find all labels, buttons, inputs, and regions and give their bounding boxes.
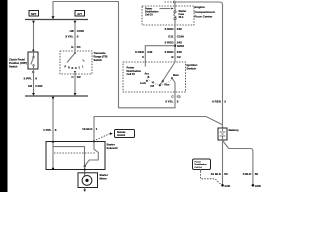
svg-text:H8: H8 [28, 84, 32, 88]
ground G101 [221, 184, 224, 187]
svg-text:50: 50 [255, 172, 259, 176]
dashed leader to ground wire [201, 171, 221, 184]
svg-text:Battery: Battery [229, 128, 240, 132]
svg-text:S202: S202 [177, 44, 184, 48]
arrow at bottom bus (CPP branch) [32, 93, 35, 96]
svg-text:5 RED: 5 RED [212, 100, 222, 104]
svg-text:G105: G105 [255, 185, 262, 188]
svg-text:C100: C100 [77, 29, 85, 33]
ignition switch dashed box [123, 62, 186, 92]
svg-text:242: 242 [177, 27, 182, 31]
svg-text:Cell 14: Cell 14 [195, 166, 203, 169]
svg-text:Engine: Engine [195, 5, 206, 9]
svg-text:5 RED: 5 RED [165, 50, 175, 54]
svg-text:C2: C2 [177, 55, 181, 59]
engine compartment fuse center dashed box [142, 6, 194, 25]
remote control reference box [115, 130, 135, 138]
svg-text:Compartment: Compartment [195, 10, 215, 14]
wire: feed into starter fuse [174, 3, 176, 11]
wire: solenoid B feed from battery wire [94, 117, 223, 142]
wire: A/T branch down to TR switch [74, 22, 76, 52]
svg-text:C1: C1 [177, 95, 181, 99]
wire: solenoid output to starter motor [84, 166, 86, 176]
svg-text:Fuse Center: Fuse Center [195, 15, 214, 19]
svg-text:Switch: Switch [94, 58, 103, 62]
svg-text:242: 242 [147, 50, 152, 54]
svg-text:Transaxle: Transaxle [94, 51, 107, 55]
svg-text:C100: C100 [177, 34, 185, 38]
arrow at A/T branch top [74, 21, 77, 24]
dashed arrow to remote control box [96, 134, 110, 140]
svg-text:Switch: Switch [9, 65, 18, 69]
svg-text:Remote: Remote [117, 131, 126, 134]
left black scan border [0, 0, 8, 192]
svg-text:Motor: Motor [100, 176, 107, 180]
power distribution cell reference box (bottom right) [193, 159, 211, 170]
svg-text:3 BLK: 3 BLK [243, 172, 253, 176]
ignition rotation dashed arc [148, 79, 172, 85]
fuse: Starter Fuse 30 A [174, 11, 176, 13]
svg-text:242: 242 [177, 50, 182, 54]
svg-text:5 RED: 5 RED [135, 50, 145, 54]
ignition switch rotary arm [160, 62, 175, 85]
svg-text:Starter: Starter [107, 142, 115, 146]
solenoid contact [85, 142, 99, 167]
svg-text:5 PPL: 5 PPL [24, 77, 33, 81]
wire: C pin stub [144, 62, 146, 67]
svg-text:Clutch Pedal: Clutch Pedal [9, 58, 25, 62]
svg-text:Range (TR): Range (TR) [94, 54, 108, 58]
node M/T tag box [29, 11, 39, 17]
junction S terminal [52, 141, 54, 143]
svg-text:3 YEL: 3 YEL [65, 35, 73, 39]
svg-text:Off: Off [150, 85, 154, 88]
wire: top option bus [25, 19, 88, 21]
wire: CPP switch output down to bottom bus [33, 69, 35, 94]
starter motor box [78, 173, 98, 188]
switch CPP (clutch pedal position) box [28, 52, 38, 69]
svg-text:1 PPL: 1 PPL [43, 128, 52, 132]
wire: ignition START feed loop to top bus [53, 2, 175, 108]
svg-text:Lock: Lock [140, 82, 146, 85]
junction arrow onto top bus [51, 16, 54, 19]
wire: bottom option bus [25, 95, 88, 97]
arrow at bottom bus (TR branch) [74, 93, 77, 96]
svg-text:Switch: Switch [187, 67, 197, 71]
svg-text:3 YEL: 3 YEL [165, 100, 173, 104]
TR switch arm and contacts [74, 52, 76, 54]
svg-text:Cell 10: Cell 10 [127, 72, 136, 76]
svg-text:G101: G101 [225, 185, 232, 188]
solenoid coil path [52, 142, 54, 169]
svg-text:N: N [72, 67, 74, 70]
svg-text:Cell 10: Cell 10 [145, 14, 153, 17]
svg-text:H8: H8 [70, 29, 74, 33]
svg-text:C100: C100 [35, 84, 43, 88]
svg-text:50: 50 [224, 172, 228, 176]
wire: battery negative to right ground [223, 141, 253, 186]
arrow below bottom bus [52, 97, 55, 100]
svg-text:M/T: M/T [31, 12, 36, 16]
wire: battery negative down to ground [222, 140, 224, 185]
svg-text:5 RED: 5 RED [165, 27, 175, 31]
junction B terminal [93, 140, 95, 142]
wire: bus output down to starter solenoid S [52, 96, 54, 142]
wire: M/T branch down to CPP switch [33, 22, 35, 53]
wire: fuse output down to S202 [174, 20, 176, 62]
svg-text:Start: Start [173, 74, 179, 77]
svg-text:Solenoid: Solenoid [107, 146, 118, 150]
svg-text:Run: Run [165, 84, 170, 87]
svg-text:D2: D2 [77, 75, 81, 79]
svg-text:Starter: Starter [100, 173, 108, 177]
svg-text:D: D [75, 67, 77, 70]
tick below reference box [200, 170, 202, 172]
CPP switch blade [31, 52, 34, 69]
wire: S202 left branch to ignition C [145, 46, 175, 62]
ground G105 [252, 184, 255, 187]
battery [218, 128, 227, 140]
svg-text:Position (CPP): Position (CPP) [9, 61, 27, 65]
svg-text:19 BLK: 19 BLK [82, 127, 93, 131]
svg-text:30 A: 30 A [179, 16, 184, 19]
arrow at M/T branch top [32, 21, 35, 24]
leader arrow to feed wire [160, 8, 171, 10]
svg-text:Acc: Acc [145, 72, 150, 75]
starter solenoid box [46, 142, 105, 170]
svg-text:A/T: A/T [77, 12, 82, 16]
wire: battery feed along top [165, 1, 173, 3]
svg-text:R: R [68, 66, 70, 69]
svg-text:E11: E11 [168, 34, 174, 38]
svg-text:Distribution: Distribution [195, 163, 208, 166]
svg-text:D1: D1 [77, 45, 81, 49]
wire: TR switch output to bottom bus [74, 72, 76, 94]
transaxle range (TR) switch dashed box [60, 51, 92, 74]
motor ground stub [84, 188, 86, 191]
wire: Start contact to C1 pin [173, 79, 175, 92]
node A/T tag box [75, 11, 85, 17]
motor symbol [82, 176, 92, 186]
svg-text:Control: Control [117, 134, 126, 137]
svg-text:5 RED: 5 RED [165, 40, 175, 44]
svg-text:Power: Power [195, 161, 202, 163]
svg-text:19 BLK: 19 BLK [211, 172, 222, 176]
splice S202 [174, 45, 176, 47]
solenoid plunger dashed link [54, 152, 96, 154]
